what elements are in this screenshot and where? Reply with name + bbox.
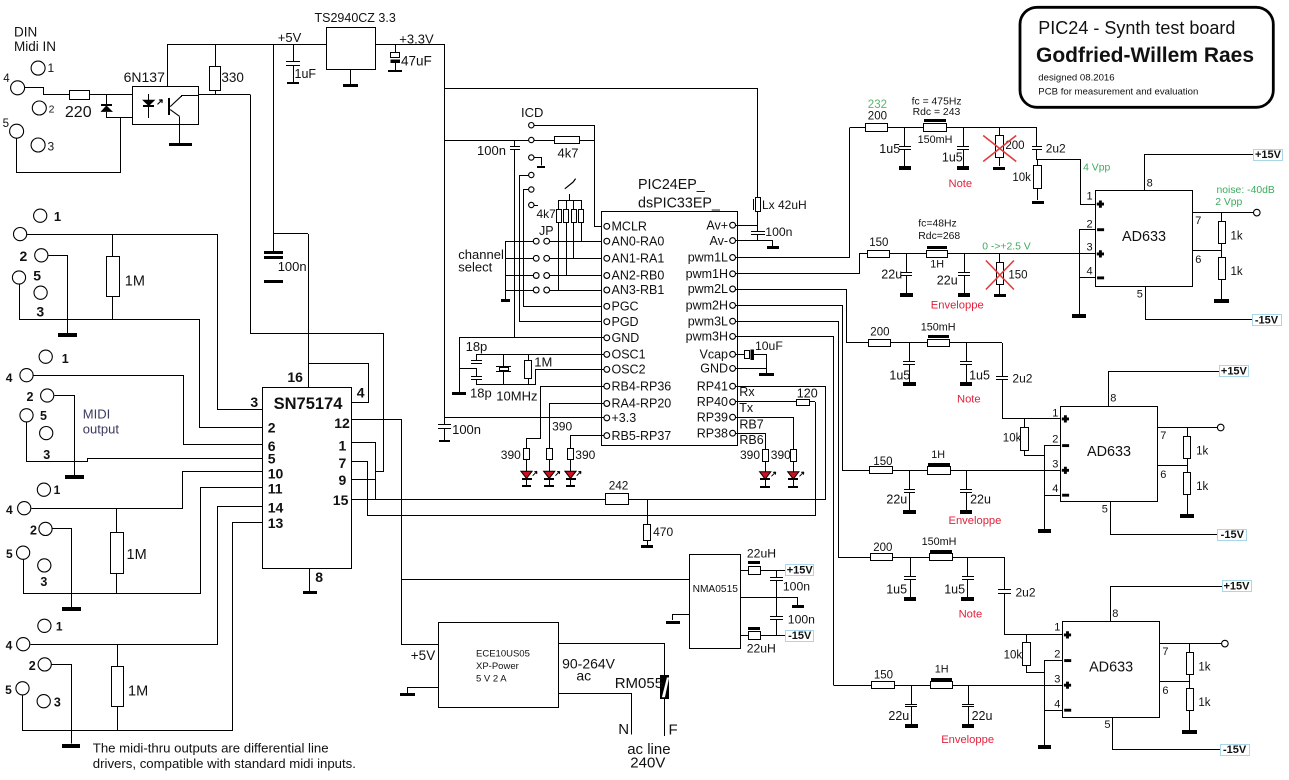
svg-text:PGD: PGD [612, 315, 639, 329]
svg-text:pwm2L: pwm2L [688, 282, 728, 296]
wire RP41 Rx [735, 386, 826, 388]
svg-text:+5V: +5V [278, 30, 302, 45]
connector J2 pin circles [39, 350, 52, 363]
wire Rx line to PIC RP41 [629, 499, 826, 501]
svg-text:DIN: DIN [14, 25, 37, 40]
ground crystal rail [459, 338, 461, 392]
capacitor C19 22u [966, 470, 968, 489]
wire ECE gnd [407, 687, 438, 689]
svg-text:2: 2 [268, 420, 276, 436]
capacitor C8 100n [757, 225, 759, 232]
terminal output circle [1217, 424, 1224, 431]
capacitor C17 2u2 series [1002, 343, 1004, 376]
ground J5 [62, 744, 80, 748]
power label -15V psu [786, 631, 814, 642]
wire J2 pin5 to U3 pin5 [27, 423, 263, 462]
wire RP40 to R13 [735, 401, 796, 403]
wire pwm3L to note filter 3 [736, 322, 839, 558]
resistor R9 1M [528, 354, 530, 360]
svg-text:18p: 18p [470, 386, 492, 401]
svg-text:2: 2 [1087, 219, 1093, 231]
svg-text:RB7: RB7 [739, 418, 763, 432]
svg-text:150mH: 150mH [921, 322, 956, 334]
svg-text:10k: 10k [1004, 650, 1023, 662]
svg-text:22u: 22u [881, 268, 902, 282]
U4 left pin circles and labels [604, 223, 610, 229]
wire NMA0515 gnd pin [672, 614, 689, 616]
svg-text:1: 1 [339, 438, 347, 454]
svg-text:1: 1 [56, 620, 63, 634]
wire pwm2H to envelope filter 2 [736, 306, 843, 471]
wire AD633 pin4 [1045, 710, 1062, 712]
svg-text:1k: 1k [1198, 697, 1210, 709]
svg-text:100n: 100n [452, 422, 481, 437]
ground Av- [767, 246, 779, 249]
wire +5V to NMA0515 input [402, 579, 689, 581]
capacitor C23 22u [911, 685, 913, 704]
svg-text:7: 7 [339, 455, 347, 471]
svg-text:2: 2 [1052, 434, 1058, 446]
wire envelope filter 1 input stub [859, 253, 867, 255]
svg-text:2: 2 [20, 248, 28, 264]
wire OSC2 [477, 370, 605, 385]
wire C22 to AD633-3 pin1 [1005, 594, 1063, 635]
wire envelope filter 1 rail to AD633-1 pin3 [889, 253, 1095, 255]
svg-text:330: 330 [221, 70, 244, 85]
svg-text:designed 08.2016: designed 08.2016 [1038, 73, 1114, 84]
capacitor C13 22u [906, 254, 908, 273]
svg-text:6N137: 6N137 [124, 69, 165, 85]
wire AD633 pin8 to +15V [1109, 372, 1220, 407]
wire pwm1L to note filter 1 [736, 128, 850, 258]
svg-text:ICD: ICD [521, 105, 543, 120]
svg-text:1: 1 [54, 483, 61, 497]
power label +15V [1220, 366, 1249, 377]
svg-text:1H: 1H [931, 449, 945, 461]
capacitor C18 22u [909, 470, 911, 489]
svg-text:5: 5 [1137, 289, 1143, 301]
psu U5 NMA0515 box [690, 555, 741, 649]
svg-text:ECE10US05: ECE10US05 [476, 649, 530, 660]
svg-text:13: 13 [268, 515, 284, 531]
svg-text:100n: 100n [765, 225, 792, 239]
svg-text:150mH: 150mH [922, 536, 957, 548]
resistor 1k upper [1221, 213, 1223, 222]
ground opto emitter [179, 117, 181, 143]
svg-text:7: 7 [1160, 430, 1166, 442]
svg-text:100n: 100n [278, 259, 307, 274]
inductor L5 1H [928, 463, 950, 466]
svg-text:2u2: 2u2 [1046, 142, 1066, 156]
svg-text:pwm1H: pwm1H [686, 267, 728, 281]
svg-text:Rdc=268: Rdc=268 [918, 231, 960, 242]
wire C12 to AD633-1 pin1 [1037, 150, 1096, 205]
wire pwm2L to note filter 2 [736, 290, 847, 343]
svg-text:242: 242 [609, 479, 629, 493]
svg-text:Tx: Tx [739, 401, 754, 415]
svg-text:4: 4 [3, 73, 10, 85]
svg-text:240V: 240V [630, 755, 665, 772]
svg-text:AN2-RB0: AN2-RB0 [612, 269, 665, 283]
capacitor C22 2u2 series [1004, 557, 1006, 589]
wire +5V rail [167, 44, 326, 46]
svg-text:3: 3 [250, 394, 258, 410]
wire AD633 pin7 output [1158, 427, 1218, 429]
connector J4 pin circles [37, 483, 50, 496]
svg-text:1u5: 1u5 [879, 142, 900, 156]
resistor R6 242 [606, 494, 629, 505]
wire pwm3H to envelope filter 3 [736, 337, 834, 686]
inductor L2 150mH [924, 119, 946, 122]
wire opto output to U3 inputs [251, 95, 384, 472]
svg-text:3: 3 [36, 304, 44, 320]
wire AD633 pin2 pin4 ground tie [1045, 446, 1061, 530]
svg-text:3: 3 [48, 140, 55, 154]
connector J5 pin circles [38, 619, 51, 632]
svg-text:150: 150 [873, 456, 892, 468]
resistor R10 390 [524, 449, 530, 460]
capacitor C5 18p [476, 354, 478, 360]
svg-text:0 ->+2.5 V: 0 ->+2.5 V [982, 242, 1031, 253]
svg-text:150: 150 [869, 237, 888, 249]
wire ICD pin3 to ground [535, 158, 542, 166]
capacitor C14 22u [964, 254, 966, 273]
fuse F1 RM055 [661, 676, 669, 699]
svg-text:2u2: 2u2 [1016, 586, 1036, 600]
wires JP left to ground bus [506, 241, 534, 243]
svg-text:16: 16 [287, 369, 303, 385]
wire AD633 pin6 [1193, 250, 1222, 252]
ground J2 [65, 475, 84, 479]
wire +3.3V branch to Lx [445, 88, 758, 90]
svg-text:18p: 18p [466, 339, 488, 354]
wire AD633 pin7 output [1193, 212, 1254, 214]
connector J3 pin circles [34, 209, 47, 222]
ground NMA0515 [666, 621, 680, 624]
svg-text:1u5: 1u5 [889, 369, 910, 383]
wire AD633 pin5 to -15V [1113, 718, 1221, 750]
svg-text:3: 3 [1087, 242, 1093, 254]
svg-text:3: 3 [40, 575, 47, 589]
mcu U4 PIC24EP box [602, 212, 738, 446]
svg-text:-15V: -15V [788, 630, 812, 642]
svg-text:-15V: -15V [1221, 529, 1245, 541]
title block frame [1020, 7, 1273, 107]
wire R13 to Tx drop [809, 401, 815, 403]
svg-text:-15V: -15V [1223, 744, 1247, 756]
svg-text:AN3-RB1: AN3-RB1 [612, 283, 665, 297]
svg-text:4: 4 [1087, 266, 1093, 278]
ground C7 [444, 428, 446, 441]
resistor R5 1M [117, 644, 119, 666]
svg-text:RP39: RP39 [697, 410, 728, 424]
svg-text:+3.3: +3.3 [612, 411, 637, 425]
inductor L6 150mH [930, 550, 952, 553]
terminal output circle [1222, 640, 1229, 647]
ground 1k divider [1182, 730, 1197, 734]
svg-text:10uF: 10uF [755, 339, 783, 353]
resistor R3 1M [112, 234, 114, 256]
svg-text:200: 200 [868, 110, 887, 122]
wire J2 pin4 to U3 pin6 [34, 376, 263, 445]
resistor R15 390 [763, 450, 769, 462]
resistor 1k lower [1219, 258, 1226, 280]
resistor 1k lower [1184, 473, 1191, 495]
led LED1 [526, 459, 528, 471]
svg-text:3: 3 [1052, 459, 1058, 471]
resistor R25 10k [1026, 635, 1028, 642]
svg-text:2: 2 [1054, 649, 1060, 661]
inductor L1 Lx 42uH [757, 88, 759, 198]
wire opto output [199, 94, 250, 96]
svg-text:fc = 475Hz: fc = 475Hz [912, 97, 962, 108]
wire J5 pin2 shield to ground [52, 665, 72, 744]
svg-text:PGC: PGC [612, 300, 639, 314]
wire AD633 pin2 pin4 ground tie [1080, 230, 1096, 315]
ground J4 [62, 607, 81, 611]
svg-text:10k: 10k [1012, 172, 1031, 184]
svg-text:4k7: 4k7 [537, 207, 557, 221]
svg-text:Note: Note [959, 609, 983, 621]
wire ICD pin4 to PGD [520, 176, 605, 322]
svg-text:Midi IN: Midi IN [14, 39, 56, 54]
svg-text:+15V: +15V [1255, 149, 1282, 161]
svg-text:1H: 1H [935, 664, 949, 676]
capacitor C9 10uF [735, 354, 745, 356]
svg-text:1: 1 [1054, 622, 1060, 634]
capacitor C1 1uF [293, 44, 295, 62]
wire Av+ [735, 225, 758, 227]
svg-text:RB5-RP37: RB5-RP37 [612, 429, 672, 443]
svg-text:10: 10 [268, 466, 284, 482]
inductor L9 22uH [740, 635, 749, 637]
svg-text:1k: 1k [1231, 266, 1243, 278]
wire C4 to PIC GND [514, 149, 516, 338]
wire AD633 pin6 [1158, 465, 1187, 467]
svg-text:Rdc = 243: Rdc = 243 [913, 107, 961, 118]
svg-text:3: 3 [43, 448, 50, 462]
capacitor C6 18p [476, 368, 478, 376]
terminal output circle [1254, 209, 1261, 216]
power label -15V [1221, 745, 1250, 756]
svg-text:4: 4 [1054, 699, 1060, 711]
svg-text:7: 7 [1195, 215, 1201, 227]
multiplier AD633 box [1061, 407, 1158, 502]
svg-text:200: 200 [870, 327, 889, 339]
svg-text:2 Vpp: 2 Vpp [1215, 197, 1242, 208]
svg-text:150: 150 [874, 670, 893, 682]
svg-text:10MHz: 10MHz [496, 389, 537, 404]
resistor 1k lower [1187, 689, 1194, 711]
svg-text:1u5: 1u5 [942, 151, 963, 165]
svg-text:GND: GND [612, 331, 640, 345]
wire pwm1H to envelope filter 1 [736, 254, 860, 274]
capacitor C25 100n [776, 570, 778, 578]
wire diode cathode to opto LED [106, 117, 148, 119]
capacitor C3 100n [273, 234, 275, 252]
svg-text:noise: -40dB: noise: -40dB [1217, 185, 1275, 196]
wire NMA0515 0V rail [740, 597, 798, 599]
svg-text:4: 4 [357, 385, 365, 401]
led LED2 [549, 459, 551, 471]
svg-text:2: 2 [29, 659, 36, 673]
svg-text:6: 6 [1195, 254, 1201, 266]
wire J4 pin2 shield to ground [53, 529, 72, 608]
resistor R20 150 crossed out [999, 254, 1001, 262]
svg-text:15: 15 [333, 492, 349, 508]
svg-text:11: 11 [268, 481, 283, 497]
power label +15V psu [786, 565, 814, 576]
svg-text:22u: 22u [972, 709, 993, 723]
svg-text:22u: 22u [970, 493, 991, 507]
svg-text:+3.3V: +3.3V [399, 32, 434, 47]
svg-text:PIC24EP_: PIC24EP_ [638, 177, 706, 193]
wire RB5 to LED3 [571, 436, 605, 449]
svg-text:100n: 100n [477, 143, 506, 158]
wire RP39 to LED4 [736, 418, 794, 450]
svg-text:AD633: AD633 [1087, 444, 1131, 460]
svg-text:390: 390 [740, 448, 760, 462]
capacitor C16 1u5 [966, 343, 968, 362]
svg-text:Lx 42uH: Lx 42uH [762, 198, 807, 212]
wire J2 pin2 shield to ground [55, 396, 75, 476]
svg-text:22u: 22u [886, 493, 907, 507]
wire RB4 to LED1 [527, 387, 605, 449]
wire note filter 3 input stub [838, 557, 870, 559]
svg-text:2: 2 [49, 104, 55, 116]
wire return to J1 pin5 [17, 118, 121, 173]
svg-text:1H: 1H [930, 259, 944, 271]
wire SN75174 pin4 enable feed [309, 364, 369, 403]
wire U3 pin15 Rx line [351, 499, 605, 501]
svg-text:1: 1 [48, 61, 55, 75]
wire Vcap to ground [754, 355, 767, 374]
wire +5V drop to SN75174 [273, 44, 275, 234]
svg-text:Av-: Av- [709, 234, 728, 248]
svg-text:-15V: -15V [1255, 314, 1279, 326]
wire ICD pin6 stub [534, 205, 538, 207]
svg-text:PCB for measurement and evalua: PCB for measurement and evaluation [1038, 87, 1198, 98]
wires JP right to PIC AN pins [549, 241, 604, 243]
svg-text:22uH: 22uH [747, 642, 776, 656]
svg-text:Godfried-Willem Raes: Godfried-Willem Raes [1036, 44, 1254, 67]
svg-text:4: 4 [6, 371, 13, 385]
svg-text:5: 5 [40, 409, 47, 423]
svg-text:1u5: 1u5 [886, 583, 907, 597]
resistor R12 390 [568, 449, 574, 460]
crystal X1 10MHz [503, 354, 505, 366]
svg-text:RP40: RP40 [697, 395, 728, 409]
ground Vcap [759, 373, 774, 376]
wire U4 GND right [735, 368, 767, 370]
resistor network RN1 4k7 [559, 200, 581, 202]
svg-text:8: 8 [1110, 393, 1116, 405]
svg-text:AN1-RA1: AN1-RA1 [612, 252, 665, 266]
wire envelope filter 2 input stub [842, 470, 870, 472]
svg-text:1: 1 [54, 209, 61, 224]
svg-text:1k: 1k [1231, 231, 1243, 243]
ground 1k divider [1180, 514, 1194, 518]
svg-text:drivers, compatible with stand: drivers, compatible with standard midi i… [93, 756, 356, 771]
wire ICD pin5 to PGC [524, 190, 605, 307]
wire U3 pin1 [351, 442, 375, 444]
power label -15V [1218, 530, 1247, 541]
psu U6 ECE10US05 box [439, 623, 559, 708]
wire U3 pin12 to +5V [352, 420, 439, 645]
svg-text:PIC24 - Synth test board: PIC24 - Synth test board [1038, 18, 1235, 38]
svg-text:RP41: RP41 [697, 379, 728, 393]
wire OSC1 [476, 354, 604, 356]
wire J5 pin4 to U3 pin14 [31, 507, 263, 645]
svg-text:RB4-RP36: RB4-RP36 [612, 379, 672, 393]
svg-text:4: 4 [6, 503, 13, 517]
wire U3 pin1 pin9 pin15 tie [375, 442, 377, 499]
wire L8 to +15V [760, 570, 786, 572]
ground ECE [400, 693, 415, 696]
svg-text:Av+: Av+ [706, 218, 728, 232]
resistor R21 200 [869, 340, 891, 347]
wire note filter 2 rail [890, 342, 1002, 344]
svg-text:390: 390 [575, 448, 595, 462]
svg-text:RB6: RB6 [739, 433, 763, 447]
svg-text:1: 1 [62, 352, 69, 366]
svg-text:150mH: 150mH [918, 134, 953, 146]
wire J4 ground rail to U3 pin11 [24, 488, 263, 594]
ground C3 [264, 280, 283, 283]
wire ECE ac input 1 [559, 644, 665, 676]
svg-text:XP-Power: XP-Power [476, 661, 519, 672]
power label +15V [1223, 581, 1252, 592]
resistor R26 150 [872, 682, 895, 689]
wire note filter 1 rail [888, 127, 1037, 129]
resistor network RN1 taps [558, 222, 560, 290]
resistor R24 200 [871, 554, 893, 561]
svg-text:4k7: 4k7 [558, 146, 579, 161]
wire note filter 2 input stub [846, 342, 868, 344]
resistor 1k upper [1189, 644, 1191, 653]
resistor R1 220 [70, 91, 90, 100]
svg-text:150: 150 [1008, 270, 1027, 282]
svg-text:pwm3L: pwm3L [688, 314, 728, 328]
wire +3.3V branch to ICD/MCLR [445, 140, 529, 142]
svg-text:22u: 22u [937, 274, 958, 288]
svg-text:100n: 100n [788, 613, 815, 627]
optocoupler U1 6N137 box [133, 87, 199, 125]
multiplier AD633 box [1063, 622, 1160, 718]
svg-text:3: 3 [1054, 674, 1060, 686]
svg-text:AD633: AD633 [1122, 229, 1166, 245]
capacitor C11 1u5 [963, 127, 965, 146]
svg-text:7: 7 [1162, 646, 1168, 658]
svg-text:MCLR: MCLR [612, 220, 647, 234]
resistor R14 390 [791, 450, 797, 462]
svg-text:SN75174: SN75174 [274, 395, 344, 413]
svg-text:5: 5 [1104, 719, 1110, 731]
wire AD633 pin7 output [1160, 643, 1222, 645]
wire AD633 pin4 [1079, 277, 1095, 279]
capacitor C7 100n [444, 418, 446, 424]
svg-text:5 V 2 A: 5 V 2 A [476, 673, 507, 684]
wire AD633 pin5 to -15V [1146, 287, 1253, 320]
svg-text:220: 220 [65, 104, 92, 121]
wire RA4 to LED2 [550, 404, 605, 449]
svg-text:+5V: +5V [411, 648, 435, 663]
ground 1k divider [1214, 299, 1229, 303]
wire RP38 to LED5 [736, 434, 766, 450]
svg-text:1k: 1k [1196, 481, 1208, 493]
svg-text:2u2: 2u2 [1012, 372, 1032, 386]
capacitor C4 100n [514, 141, 516, 146]
